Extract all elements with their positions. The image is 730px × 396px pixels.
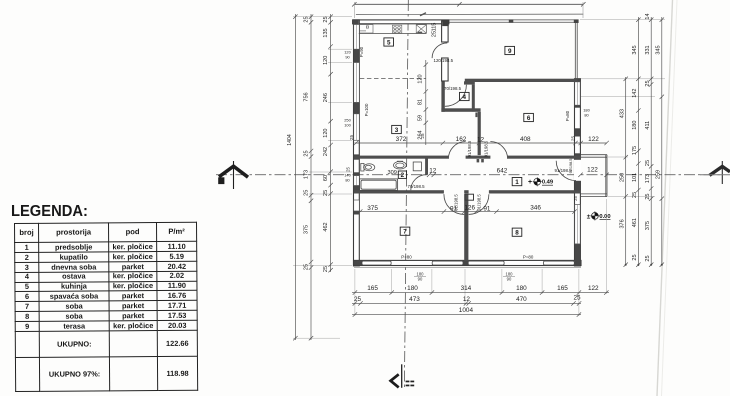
svg-text:25: 25: [645, 194, 651, 200]
svg-text:408: 408: [520, 136, 531, 143]
door bathroom arc: [411, 175, 427, 191]
left wall pier between windows 1-2: [354, 49, 359, 62]
svg-text:14: 14: [645, 13, 651, 19]
svg-text:120: 120: [323, 129, 329, 138]
right wall tick below window6: [575, 105, 580, 108]
corridor door jamb marks: [477, 159, 480, 162]
terrace corner blocks: [509, 19, 514, 22]
door room4 arc: [445, 85, 467, 107]
svg-text:462: 462: [323, 222, 329, 231]
bottom wall window 8a: [468, 261, 504, 265]
svg-text:90: 90: [507, 277, 512, 282]
svg-text:122: 122: [588, 285, 599, 292]
left extension lines: [293, 17, 352, 339]
terrace door side wall upper: [442, 20, 449, 42]
bottom wall window 7b: [432, 261, 463, 265]
svg-text:120: 120: [323, 56, 329, 65]
svg-text:314: 314: [461, 285, 472, 292]
svg-text:375: 375: [303, 225, 309, 234]
svg-text:25: 25: [645, 80, 651, 86]
svg-text:246: 246: [323, 93, 329, 102]
svg-text:259: 259: [656, 170, 662, 179]
svg-text:242: 242: [323, 147, 329, 156]
right chain 1: [624, 77, 628, 267]
svg-text:756: 756: [303, 92, 309, 101]
svg-text:1: 1: [515, 179, 519, 186]
svg-text:80: 80: [584, 113, 589, 118]
axis end marker left: [218, 161, 248, 189]
svg-text:80: 80: [345, 178, 350, 183]
kitchen sink: [359, 25, 373, 33]
svg-text:90: 90: [418, 277, 423, 282]
room 9 label: [505, 46, 515, 55]
entrance door arc: [556, 161, 576, 181]
svg-text:25: 25: [632, 192, 638, 198]
jamb mark B: [475, 113, 477, 118]
svg-text:346: 346: [530, 205, 541, 212]
kitchen stove: [392, 25, 401, 33]
wall between rooms 7 and 8: [464, 194, 468, 261]
right wall pier at corridor top: [575, 153, 580, 161]
vertical axis centerline: [404, 0, 408, 389]
washbasin: [394, 161, 407, 169]
door corridor-room8 arc: [469, 194, 489, 214]
bottom wall window 8b: [544, 261, 575, 265]
svg-text:173: 173: [303, 170, 309, 179]
svg-text:165: 165: [367, 285, 378, 292]
terrace bottom wall / room6 top wall: [465, 79, 578, 82]
right wall: [575, 79, 581, 266]
svg-text:25: 25: [323, 16, 329, 22]
svg-text:25: 25: [349, 135, 354, 141]
left wall window bathroom: [354, 176, 360, 186]
svg-text:25: 25: [323, 190, 329, 196]
svg-text:25: 25: [571, 136, 576, 142]
top wall (kitchen): [353, 20, 449, 24]
kitchen counter line: [359, 33, 427, 35]
svg-text:59: 59: [418, 115, 424, 121]
room 5 label: [384, 38, 394, 47]
svg-text:P=80: P=80: [523, 254, 534, 259]
svg-text:91/198.5: 91/198.5: [477, 194, 482, 211]
bottom wall right corner pier: [574, 261, 580, 266]
kitchen counter end line: [425, 24, 427, 34]
room 4 left wall: [441, 81, 444, 112]
svg-text:±: ±: [587, 213, 591, 220]
axis end marker right: [700, 161, 730, 184]
svg-text:376: 376: [619, 219, 625, 228]
left wall window living: [354, 63, 360, 103]
chain B: [309, 14, 313, 340]
svg-text:25: 25: [303, 16, 309, 22]
bathtub: [360, 179, 398, 191]
room 4 bottom wall: [441, 108, 480, 112]
svg-text:1404: 1404: [287, 134, 293, 146]
svg-text:2: 2: [401, 172, 405, 179]
right wall window room6: [575, 82, 581, 105]
left wall pier between windows 2-3: [354, 102, 359, 113]
bathroom right wall: [425, 157, 428, 175]
svg-text:9: 9: [508, 48, 512, 55]
left wall pier at bathroom bottom wall: [354, 186, 359, 191]
door corridor-living arc: [448, 142, 465, 159]
kitchen / living dashed zone separator: [360, 77, 426, 79]
top-left corner pier: [353, 20, 359, 25]
right chain 2: [636, 17, 640, 267]
level marker +0.49: [528, 177, 554, 186]
svg-text:70/198.5: 70/198.5: [444, 86, 462, 91]
right wall window room8: [575, 205, 581, 244]
right wall pier below entry: [575, 180, 580, 191]
svg-text:126: 126: [464, 205, 475, 212]
svg-text:250: 250: [619, 173, 625, 182]
svg-text:345: 345: [656, 45, 662, 54]
svg-text:175: 175: [632, 146, 638, 155]
entrance landing outline: [580, 155, 607, 197]
right wall pier mid: [575, 128, 580, 136]
svg-text:3: 3: [395, 127, 399, 134]
wall left of room 6: [478, 112, 481, 155]
kitchen fridge: [416, 25, 426, 34]
terrace top edge: [449, 20, 577, 22]
terrace door side wall lower: [442, 58, 449, 81]
door corridor-room6 arc: [490, 142, 507, 159]
svg-text:135: 135: [323, 28, 329, 37]
svg-text:470: 470: [516, 296, 527, 303]
north arrow / section mark: [391, 364, 415, 388]
svg-text:309: 309: [388, 170, 397, 176]
left wall tick above bath window: [354, 172, 359, 175]
svg-text:8: 8: [515, 230, 519, 237]
svg-text:P=100: P=100: [364, 103, 369, 116]
svg-text:81: 81: [418, 99, 424, 105]
room 2 label: [398, 171, 406, 179]
left wall pier at bathroom top wall: [354, 154, 359, 159]
corridor bottom wall segments: [354, 190, 444, 193]
toilet: [361, 163, 375, 171]
door living-terrace arc: [432, 43, 447, 58]
left wall tick below room7 window: [354, 211, 359, 215]
boiler/shower square: [413, 162, 421, 171]
left wall: [354, 20, 360, 266]
bottom wall: [354, 260, 582, 265]
svg-text:91/198.5: 91/198.5: [454, 194, 459, 211]
top extension lines: [355, 2, 584, 18]
svg-text:173: 173: [645, 174, 651, 183]
svg-text:25: 25: [573, 196, 578, 201]
svg-text:165: 165: [557, 285, 568, 292]
svg-text:331: 331: [645, 45, 651, 54]
svg-text:91/198.5: 91/198.5: [569, 159, 573, 174]
door corridor-room7 arc: [444, 194, 464, 214]
room 4 right wall: [472, 85, 475, 112]
svg-text:+: +: [528, 179, 532, 186]
bottom dim row 2: [352, 301, 581, 305]
svg-text:25: 25: [354, 296, 362, 303]
room 8 label: [512, 228, 522, 237]
right extension lines: [580, 20, 665, 197]
bottom dim row 1: [352, 290, 609, 294]
svg-text:115: 115: [432, 23, 438, 32]
svg-text:12: 12: [463, 296, 471, 303]
chain C: [328, 14, 332, 272]
svg-text:25: 25: [303, 190, 309, 196]
svg-text:120: 120: [418, 74, 424, 83]
extension lines below building: [355, 199, 606, 316]
bottom dim row 3: [352, 312, 581, 316]
svg-text:1004: 1004: [459, 307, 474, 314]
corridor top wall segments: [354, 156, 448, 159]
svg-text:122: 122: [588, 136, 599, 143]
svg-text:375: 375: [645, 221, 651, 230]
svg-text:P=80: P=80: [401, 254, 412, 259]
svg-text:142: 142: [632, 89, 638, 98]
svg-text:180: 180: [632, 121, 638, 130]
svg-text:91/198.5: 91/198.5: [484, 140, 489, 157]
left wall window kitchen: [354, 25, 360, 50]
bottom wall window 7a: [362, 261, 391, 265]
right wall pier top: [575, 79, 580, 82]
svg-text:7: 7: [403, 229, 407, 236]
level marker ±0.00: [587, 211, 611, 220]
svg-text:375: 375: [367, 205, 378, 212]
svg-text:25: 25: [323, 266, 329, 272]
svg-text:101: 101: [632, 173, 638, 182]
terrace right edge: [575, 20, 577, 80]
legend title: [11, 203, 88, 221]
right chain 3: [649, 17, 653, 267]
svg-text:411: 411: [645, 121, 651, 130]
svg-text:91/198.5: 91/198.5: [467, 140, 472, 157]
svg-text:25: 25: [303, 150, 309, 156]
right wall entrance opening: [574, 160, 581, 181]
svg-text:0.00: 0.00: [599, 214, 610, 220]
svg-text:P=80: P=80: [565, 110, 570, 121]
svg-text:461: 461: [632, 218, 638, 227]
svg-text:433: 433: [619, 109, 625, 118]
tiny window dims below bottom wall: [414, 272, 515, 282]
svg-text:25: 25: [632, 254, 638, 260]
room 4 top wall block: [464, 81, 475, 84]
svg-text:100: 100: [344, 123, 351, 128]
room 3 label: [392, 125, 402, 133]
svg-text:345: 345: [632, 45, 638, 54]
horizontal axis centerline: [216, 174, 722, 176]
svg-text:P=90: P=90: [359, 46, 364, 57]
chain A (overall 1404): [293, 14, 297, 340]
svg-text:264: 264: [418, 130, 424, 139]
left wall window room7: [354, 200, 360, 211]
svg-text:5: 5: [387, 39, 391, 46]
scan page edge artifact: [657, 0, 673, 396]
right chain 4: [660, 17, 664, 267]
room 7 label: [400, 227, 410, 236]
legend table: [14, 222, 197, 392]
svg-text:90: 90: [345, 55, 350, 60]
dim line y211.6: [357, 211, 575, 213]
dim line y143: [355, 142, 608, 144]
svg-text:60: 60: [323, 175, 329, 181]
room 1 label: [512, 178, 522, 187]
room 6 label: [524, 113, 534, 122]
room 4 label: [460, 92, 470, 101]
svg-text:6: 6: [527, 115, 531, 122]
bottom wall divider pier: [463, 261, 468, 266]
svg-text:122: 122: [587, 167, 598, 174]
svg-text:162: 162: [456, 136, 467, 143]
left wall window 3: [354, 114, 360, 141]
svg-text:642: 642: [497, 167, 508, 174]
svg-text:25: 25: [645, 255, 651, 261]
top dimension line 2: [356, 13, 583, 16]
svg-text:4: 4: [463, 94, 467, 101]
svg-text:70/198.5: 70/198.5: [408, 184, 426, 189]
bottom wall outer sill line: [354, 266, 581, 268]
svg-text:25: 25: [432, 31, 438, 37]
bottom wall left corner pier: [354, 261, 362, 266]
top dimension line 1: [352, 2, 585, 6]
svg-text:25: 25: [573, 294, 581, 301]
door jamb block corridor: [465, 194, 474, 200]
svg-text:473: 473: [409, 296, 420, 303]
svg-text:180: 180: [407, 285, 418, 292]
svg-text:25: 25: [346, 167, 351, 172]
wall piers (dark): [353, 20, 581, 266]
svg-text:120/198.5: 120/198.5: [434, 58, 454, 63]
svg-text:180: 180: [516, 285, 527, 292]
svg-text:372: 372: [396, 136, 407, 143]
svg-text:25: 25: [303, 264, 309, 270]
svg-text:25: 25: [645, 160, 651, 166]
right wall bottom pier: [575, 244, 580, 266]
svg-text:0.49: 0.49: [542, 180, 554, 186]
svg-text:91: 91: [483, 205, 491, 212]
